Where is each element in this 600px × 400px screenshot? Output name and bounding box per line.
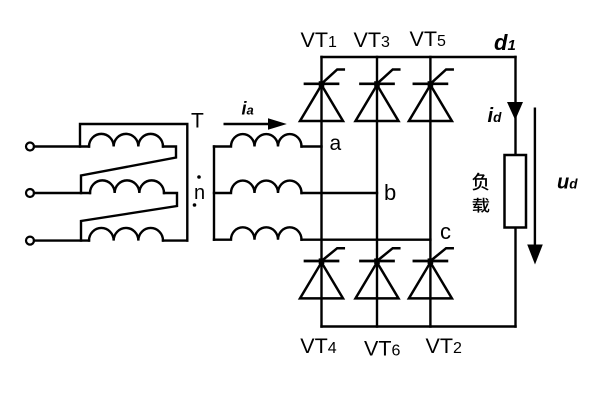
thyristor VT4 triangle [300, 262, 343, 298]
wire delta link winding 1 to winding 2 [81, 147, 176, 194]
wire terminal C1 to primary winding 3 [34, 239, 89, 241]
wire terminal B1 to primary winding 2 [34, 192, 90, 194]
wire DC positive bus to node d1 [322, 56, 516, 58]
transformer T primary winding 1 [89, 134, 163, 147]
thyristor VT2 triangle [409, 262, 452, 298]
svg-text:b: b [384, 180, 396, 205]
wire DC right rail upper (node d1 to load) [514, 57, 516, 155]
thyristor VT1 triangle [300, 85, 343, 121]
svg-text:a: a [330, 132, 342, 155]
load label character fu (load) [472, 173, 488, 191]
current id arrowhead [507, 102, 523, 120]
svg-text:c: c [440, 219, 451, 244]
transformer T secondary winding b [214, 181, 302, 193]
terminal C1 [26, 237, 34, 245]
transformer T primary winding 2 [90, 180, 164, 193]
wire DC negative bus [322, 325, 516, 327]
wire node b to bridge leg 2 [302, 192, 378, 194]
node n secondary star neutral bus [213, 147, 215, 240]
thyristor VT3 triangle [356, 85, 399, 121]
thyristor VT2 gate [430, 248, 452, 261]
wire delta loop: left riser, top bar, right side of transformer primary [80, 124, 187, 241]
load label character zai (load) [473, 198, 490, 213]
bridge leg 2 (VT3/VT6, phase b) [376, 57, 378, 327]
wire primary winding 3 to delta right side [163, 239, 187, 241]
current ia arrowhead [268, 118, 287, 130]
thyristor VT1 cathode bar [305, 82, 338, 85]
thyristor VT6 gate [377, 248, 399, 261]
bridge leg 1 (VT1/VT4, phase a) [320, 57, 322, 327]
wire node c to bridge leg 3 [302, 238, 431, 240]
thyristor VT3 gate [377, 70, 399, 84]
terminal B1 [26, 189, 34, 197]
thyristor VT4 cathode junction dot [319, 258, 325, 264]
thyristor VT1 cathode junction dot [319, 81, 325, 87]
voltage ud arrow shaft [534, 108, 536, 247]
voltage ud arrowhead [527, 245, 543, 265]
wire DC right rail lower (load to negative bus) [514, 228, 516, 327]
thyristor VT3 cathode junction dot [374, 81, 380, 87]
bridge leg 3 (VT5/VT2, phase c) [429, 57, 431, 327]
thyristor VT5 cathode junction dot [428, 81, 434, 87]
transformer T secondary winding c [214, 227, 302, 239]
node n dot above [197, 175, 201, 179]
terminal A1 [26, 143, 34, 151]
node n dot below [193, 203, 197, 207]
transformer T primary winding 3 [89, 228, 163, 241]
thyristor VT6 triangle [356, 262, 399, 298]
transformer T secondary winding a [214, 134, 302, 146]
wire terminal A1 to primary winding 1 [34, 145, 89, 147]
svg-text:T: T [191, 110, 204, 133]
wire delta link winding 2 to winding 3 [81, 193, 177, 241]
thyristor VT1 gate [322, 70, 344, 84]
thyristor VT5 triangle [409, 85, 452, 121]
thyristor VT6 cathode junction dot [374, 258, 380, 264]
thyristor VT5 cathode bar [414, 82, 447, 85]
thyristor VT2 cathode junction dot [428, 258, 434, 264]
thyristor VT5 gate [430, 70, 452, 84]
load resistor box [505, 155, 527, 228]
thyristor VT4 gate [322, 248, 344, 261]
thyristor VT6 cathode bar [361, 260, 394, 263]
thyristor VT3 cathode bar [361, 82, 394, 85]
thyristor VT4 cathode bar [305, 260, 338, 263]
svg-text:n: n [194, 182, 205, 204]
current ia arrow shaft [224, 123, 271, 125]
thyristor VT2 cathode bar [414, 260, 447, 263]
wire node a to bridge leg 1 [302, 145, 322, 147]
